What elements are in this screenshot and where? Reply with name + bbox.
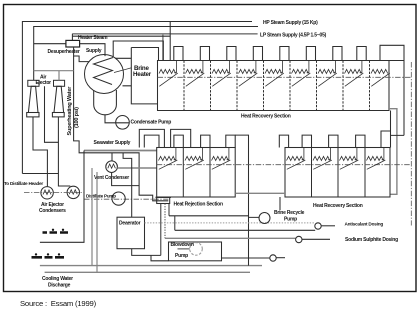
evaporator cell 3 internals (tube bundle, vapor pipe, brine weir) (212, 69, 229, 73)
air ejector condenser 1 (41, 187, 53, 199)
wire label-side step line (45, 86, 59, 142)
wire heater to cell1 pipe B (116, 48, 159, 61)
air ejector E1 head (28, 80, 39, 86)
svg-text:Seawater Supply: Seawater Supply (94, 140, 131, 146)
svg-text:Pump: Pump (175, 253, 188, 259)
wire deaerator inlet (123, 153, 132, 217)
svg-text:Discharge: Discharge (48, 283, 71, 289)
wire LP drop into cell 1 (162, 34, 164, 61)
air ejector E2 head (54, 80, 65, 86)
row1 bottom right step gray (389, 109, 397, 195)
distillate pump (112, 192, 125, 205)
brine line between groups gray (235, 192, 285, 194)
row2R dividers (312, 148, 366, 198)
cooling water riser 1 (91, 168, 93, 266)
air ejector E2 body (54, 86, 64, 112)
rejection cell 2 internals (tube bundle, vapor pipe, brine weir) (185, 156, 202, 160)
row2L shell (157, 148, 236, 198)
svg-text:To Distillate Header: To Distillate Header (4, 181, 43, 186)
recovery cell 1 internals (tube bundle, vapor pipe, brine weir) (287, 156, 304, 160)
evaporator cell 1 internals (tube bundle, vapor pipe, brine weir) (159, 69, 176, 73)
cell interior glyphs row2 (159, 148, 386, 170)
row1 shell (158, 61, 390, 111)
svg-text:Ejector: Ejector (36, 80, 52, 86)
wire heater steam supply (72, 34, 170, 41)
outlet box drains (164, 204, 166, 239)
wire ejector steam header (34, 71, 74, 81)
wire to distillate header line (22, 173, 58, 175)
evaporator cell 7 internals (tube bundle, vapor pipe, brine weir) (318, 69, 335, 73)
wire vessel drain to condensate pump (105, 115, 129, 123)
row2R chimneys (279, 135, 365, 147)
wire desuperheater inlet left (34, 43, 66, 45)
wire superheating water long line (74, 56, 169, 201)
wire vent condenser vapor line gray (117, 167, 156, 169)
wire R2 steam line (34, 27, 258, 81)
wire condensers dash line (24, 191, 84, 193)
cell interior glyphs row1 (159, 61, 390, 87)
rejection cell 1 internals (tube bundle, vapor pipe, brine weir) (159, 156, 176, 160)
cooling water discharge line 2 (45, 271, 250, 273)
row1 chimneys (174, 47, 366, 61)
wire deaerator vent dotted (145, 222, 316, 224)
svg-text:Condensers: Condensers (39, 208, 66, 214)
wire deaerator outlet steps (132, 249, 169, 261)
evaporator cell 5 internals (tube bundle, vapor pipe, brine weir) (265, 69, 282, 73)
air ejector E2 foot (52, 113, 64, 117)
brine heater tube zigzag (94, 58, 114, 85)
svg-text:Condensate Pump: Condensate Pump (131, 120, 172, 126)
arabic label 2 (32, 254, 65, 258)
wire E1 drain to condenser 1 (33, 117, 47, 186)
row2L dividers (183, 148, 210, 198)
row1 cell dividers (184, 61, 370, 111)
wire E2 drain line (58, 117, 70, 186)
svg-text:Heat Rejection Section: Heat Rejection Section (174, 202, 224, 208)
svg-text:Deaerator: Deaerator (119, 220, 141, 226)
wire seawater makeup riser (40, 151, 84, 243)
final condenser stage internals (371, 69, 388, 73)
svg-text:Cooling Water: Cooling Water (42, 276, 73, 282)
heater vessel (94, 90, 117, 115)
row2L outlet box (157, 197, 170, 203)
row2 vapor dash line (157, 164, 412, 166)
wire vent condenser drain (112, 173, 140, 186)
deaerator (117, 217, 145, 249)
air ejector condenser 2 (67, 186, 79, 198)
evaporator cell 6 internals (tube bundle, vapor pipe, brine weir) (292, 69, 309, 73)
desuperheater (66, 40, 80, 47)
svg-text:Pump: Pump (284, 217, 297, 223)
wire HP steam header R1 top (22, 22, 252, 174)
brine recycle pump (259, 213, 270, 224)
wire group down stub (279, 197, 281, 210)
svg-text:(100 psi): (100 psi) (74, 107, 80, 128)
row2L outer ducts (139, 129, 190, 147)
svg-text:Heat Recovery Section: Heat Recovery Section (241, 114, 291, 120)
seawater supply gray line (84, 150, 157, 152)
sodium sulphite leader (302, 238, 330, 240)
svg-text:Blowdown: Blowdown (171, 242, 194, 248)
svg-text:Desuperheater: Desuperheater (48, 49, 80, 55)
recovery cell 2 internals (tube bundle, vapor pipe, brine weir) (313, 156, 330, 160)
row2L chimney3 cap extension (235, 135, 248, 266)
svg-text:Superheating Water: Superheating Water (67, 86, 73, 136)
svg-text:Sodium Sulphite Dosing: Sodium Sulphite Dosing (345, 237, 398, 243)
brine recycle pump feed (169, 216, 259, 218)
row1 vapor dash line (158, 76, 412, 78)
arabic label 1 (43, 229, 69, 232)
wire LP steam supply gray (72, 33, 257, 35)
recovery cell 3 internals (tube bundle, vapor pipe, brine weir) (340, 156, 357, 160)
air ejector E1 body (28, 86, 38, 112)
sodium sulphite line gray (165, 237, 296, 239)
wire HP drop into cell 1 (169, 22, 171, 61)
evaporator cell 8 internals (tube bundle, vapor pipe, brine weir) (345, 69, 362, 73)
wire vent condenser inlet stub (111, 153, 113, 161)
evaporator cell 4 internals (tube bundle, vapor pipe, brine weir) (239, 69, 256, 73)
right side dash-dot vertical (410, 62, 412, 226)
sodium sulphite circle (296, 236, 302, 242)
svg-text:LP Steam Supply (4.5P 1.5~05): LP Steam Supply (4.5P 1.5~05) (260, 32, 327, 38)
blowdown box (169, 242, 222, 261)
blowdown discharge (222, 257, 270, 259)
wire heater label pointer (114, 68, 132, 73)
svg-text:Supply: Supply (86, 48, 102, 54)
row2R right duct from header (381, 111, 404, 148)
wire desuperheater staircase to heater left (74, 47, 89, 62)
brine heater U1 (85, 55, 124, 94)
blowdown pump (190, 243, 203, 256)
wire distillate dash line (84, 192, 168, 199)
antiscalant dosing circle (315, 223, 321, 229)
discharge circle (270, 255, 276, 261)
row1 last unit wide chimney and right header (380, 45, 404, 135)
row2R shell (285, 148, 390, 198)
vent condenser (106, 161, 118, 173)
svg-text:HP Steam Supply (15 Kp): HP Steam Supply (15 Kp) (263, 20, 318, 26)
rejection cell 3 internals (tube bundle, vapor pipe, brine weir) (212, 156, 229, 160)
condensate pump (116, 116, 130, 130)
svg-text:Brine Recycle: Brine Recycle (274, 210, 305, 216)
antiscalant leader (321, 225, 335, 227)
svg-text:Source : Essam (1999): Source : Essam (1999) (20, 299, 97, 308)
antiscalant line (175, 229, 315, 231)
row2L chimneys (174, 135, 235, 147)
cooling water discharge line 1 (40, 265, 262, 267)
cooling water riser 2 (96, 172, 98, 272)
svg-text:Distillate Pump: Distillate Pump (86, 194, 116, 199)
air ejector E1 foot (27, 113, 39, 117)
wire heater lower return pipe (123, 48, 158, 104)
wire desuperheater outlet to heater top (80, 44, 105, 56)
svg-text:Heater Steam: Heater Steam (78, 35, 108, 41)
svg-text:Heater: Heater (133, 71, 152, 78)
discharge circle leader (276, 257, 285, 259)
evaporator cell 2 internals (tube bundle, vapor pipe, brine weir) (186, 69, 203, 73)
svg-text:Antiscalant Dosing: Antiscalant Dosing (345, 222, 384, 227)
svg-text:Heat Recovery Section: Heat Recovery Section (313, 203, 363, 209)
recovery cell 4 internals (tube bundle, vapor pipe, brine weir) (367, 156, 384, 160)
wire heater to cell1 pipe A (113, 41, 163, 61)
